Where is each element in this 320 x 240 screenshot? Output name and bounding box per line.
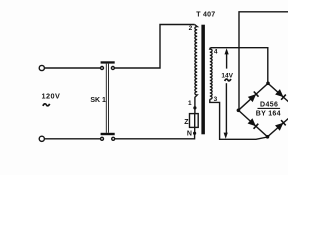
svg-text:T 407: T 407 (196, 12, 215, 19)
svg-text:3: 3 (214, 96, 218, 103)
svg-text:N: N (187, 131, 192, 138)
svg-text:Z: Z (184, 119, 189, 126)
svg-text:14V: 14V (221, 72, 233, 79)
svg-text:120V: 120V (42, 92, 61, 101)
svg-text:SK 1: SK 1 (90, 97, 106, 104)
svg-text:4: 4 (214, 49, 218, 56)
svg-text:1: 1 (188, 100, 192, 107)
svg-text:BY 164: BY 164 (256, 111, 281, 118)
svg-text:2: 2 (189, 25, 193, 32)
svg-text:D456: D456 (260, 102, 278, 109)
